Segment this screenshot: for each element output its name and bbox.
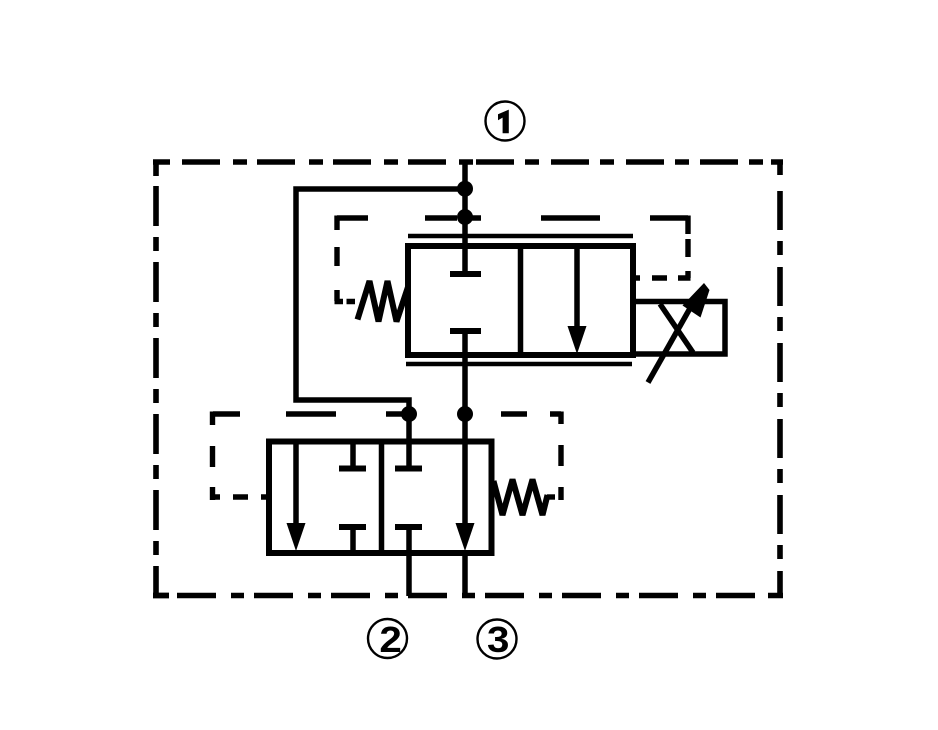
solenoid proportional arrow shaft <box>648 303 693 383</box>
lower valve U2: left blocked T stem bottom <box>350 527 356 553</box>
spring S2: lower valve right spring <box>494 480 548 516</box>
lower valve U2: left flow arrow shaft <box>293 441 299 523</box>
node: junction dot feedback branch <box>457 181 473 197</box>
solenoid cross diagonal <box>660 304 693 353</box>
lower valve U2: body <box>269 442 492 554</box>
wire: main line from upper valve lower T down to port 3 at boundary <box>462 331 468 523</box>
wire: right blocked T stem bottom continuing to port 2 <box>406 527 412 596</box>
pilot dashed box upper: left edge <box>334 216 339 302</box>
pilot dashed box lower: left edge <box>213 412 221 501</box>
upper valve U1: parallel line below (infinite positioning) <box>406 362 632 367</box>
pilot dashed box upper: lead to valve right <box>635 275 691 280</box>
upper valve U1: parallel line above (infinite positioning) <box>408 234 633 239</box>
svg-text:3: 3 <box>487 620 509 661</box>
lower valve U2: left flow arrow head <box>287 523 306 551</box>
wire: port 1 line down into upper valve (upper part) <box>462 160 468 274</box>
node: junction dot on upper pilot box edge <box>457 209 473 225</box>
wire: feedback pilot line from port-1 line to lower valve <box>296 189 465 466</box>
pilot dashed box around lower valve: top edge <box>213 412 561 425</box>
node: junction dot main line on lower pilot box edge <box>457 406 473 422</box>
solenoid/adjust box on upper valve right <box>633 302 725 355</box>
lower valve U2: position divider <box>379 441 385 553</box>
pilot dashed box around upper valve: top edge <box>337 215 688 220</box>
lower valve U2: right flow arrow head <box>456 523 475 551</box>
upper valve U1: flow arrow head <box>568 326 587 354</box>
upper valve U1: blocked port T bar top <box>450 271 481 277</box>
lower valve U2: left blocked T bar top <box>339 466 366 472</box>
pilot dashed box lower: right edge <box>558 445 563 500</box>
pilot dashed box lower: lead to valve left <box>233 494 267 499</box>
pilot dashed box upper: lead to spring <box>335 299 356 304</box>
node: junction dot pilot line on lower pilot box edge <box>401 406 417 422</box>
lower valve U2: right blocked T bar top <box>395 466 422 472</box>
boundary: outer dash-dot cartridge border <box>153 160 783 596</box>
port 3 circle <box>478 620 517 659</box>
lower valve U2: right blocked T bar bottom <box>395 524 422 530</box>
port 1 label <box>498 110 509 134</box>
wire: port 3 stem below lower valve <box>462 550 468 598</box>
pilot dashed box lower: lead to spring <box>547 494 555 499</box>
spring S1: upper valve left spring <box>358 281 409 322</box>
upper valve U1: flow arrow shaft right position <box>574 246 580 330</box>
upper valve U1: blocked port T bar bottom <box>450 328 481 334</box>
port 2 circle <box>368 619 407 658</box>
svg-text:2: 2 <box>379 620 401 661</box>
upper valve U1: position divider <box>518 246 524 355</box>
lower valve U2: left blocked T stem top <box>350 441 356 466</box>
port 1 circle <box>486 102 525 141</box>
pilot dashed box upper: right edge <box>685 216 690 279</box>
lower valve U2: left blocked T bar bottom <box>339 524 366 530</box>
solenoid proportional arrow head <box>683 283 710 318</box>
upper valve U1: proportional element body <box>408 246 633 355</box>
